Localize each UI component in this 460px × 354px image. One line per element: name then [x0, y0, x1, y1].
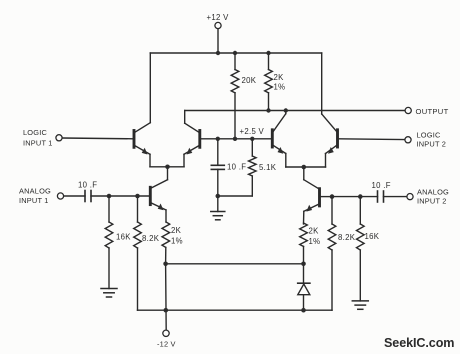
- resistor 2K 1% (left emitter): [162, 222, 170, 264]
- node: junction 20K top: [233, 51, 237, 55]
- wire: analog input 2 line: [332, 196, 378, 198]
- resistor 16K (right): [357, 197, 365, 301]
- capacitor 10uF (center, to ground): [211, 139, 224, 196]
- node: diode bottom on bottom rail: [301, 308, 306, 313]
- resistor 2K 1% (upper): [265, 53, 273, 111]
- +12V supply terminal: [215, 22, 221, 53]
- svg-text:2K: 2K: [309, 227, 320, 236]
- node: -12V junction on bottom rail: [164, 308, 169, 313]
- wire: base rail +2.5V between Q2 and Q3: [200, 138, 272, 140]
- transistor Q6 (right current source NPN): [304, 189, 333, 224]
- resistor 20K: [231, 53, 239, 139]
- svg-text:8.2K: 8.2K: [338, 233, 356, 242]
- svg-text:20K: 20K: [242, 76, 257, 85]
- wire: bottom rail: [138, 309, 333, 311]
- node: cap top on base rail: [216, 137, 220, 141]
- transistor Q3 (right inner NPN): [272, 111, 304, 168]
- svg-text:5.1K: 5.1K: [259, 163, 277, 172]
- node: right emitter junction: [302, 165, 307, 170]
- wire: Q4 base to logic input 2: [339, 138, 405, 141]
- node: left end of emitter rail: [163, 262, 168, 267]
- OUTPUT terminal: [405, 107, 411, 113]
- -12V supply terminal: [163, 330, 169, 336]
- node: right end of emitter rail: [301, 262, 306, 267]
- svg-text:-12 V: -12 V: [157, 340, 176, 349]
- svg-text:ANALOG: ANALOG: [417, 187, 449, 196]
- node: Q3 collector on output rail: [284, 108, 288, 112]
- resistor 2K 1% (right emitter): [300, 223, 308, 264]
- svg-text:16K: 16K: [116, 233, 131, 242]
- svg-text:2K: 2K: [171, 226, 182, 235]
- svg-text:INPUT 1: INPUT 1: [23, 138, 53, 147]
- capacitor 10uF (analog input 1, series): [64, 191, 149, 202]
- wire: Q6 base junction to analog input 2 line: [330, 194, 335, 199]
- svg-text:16K: 16K: [365, 232, 380, 241]
- node: 5.1K top on base rail: [250, 137, 254, 141]
- LOGIC INPUT 1 terminal: [56, 135, 62, 141]
- node: 16K right top: [358, 194, 363, 199]
- wire: right drop from top rail to Q4 collector: [321, 53, 323, 114]
- resistor 16K (left): [105, 196, 113, 289]
- node: junction +12V on top rail: [216, 51, 220, 55]
- svg-text:+12 V: +12 V: [207, 13, 230, 22]
- transistor Q2 (left inner NPN): [168, 111, 200, 167]
- svg-text:8.2K: 8.2K: [142, 234, 160, 243]
- node: junction 2K top: [266, 51, 270, 55]
- svg-text:SeekIC.com: SeekIC.com: [384, 336, 454, 350]
- svg-text:1%: 1%: [274, 83, 286, 92]
- wire: output rail: [185, 110, 405, 112]
- svg-text:+2.5 V: +2.5 V: [240, 127, 265, 136]
- capacitor 10uF (analog input 2, series): [378, 191, 407, 202]
- node: 8.2K top on analog line: [135, 194, 140, 199]
- node: cap/5.1K junction: [216, 194, 221, 199]
- ANALOG INPUT 1 terminal: [57, 193, 63, 199]
- svg-text:10 .F: 10 .F: [227, 162, 246, 171]
- svg-text:2K: 2K: [274, 73, 285, 82]
- svg-text:10 .F: 10 .F: [78, 181, 97, 190]
- svg-text:INPUT 2: INPUT 2: [417, 196, 447, 205]
- svg-text:INPUT 1: INPUT 1: [19, 196, 49, 205]
- wire: -12V drop: [165, 264, 168, 331]
- wire: right pair tail to Q6 collector: [304, 167, 319, 189]
- ground (center): [211, 196, 225, 220]
- svg-text:OUTPUT: OUTPUT: [416, 107, 449, 116]
- LOGIC INPUT 2 terminal: [405, 137, 411, 143]
- ANALOG INPUT 2 terminal: [407, 194, 413, 200]
- node: 20K bottom on base rail: [233, 137, 237, 141]
- svg-text:INPUT 2: INPUT 2: [417, 139, 447, 148]
- svg-text:1%: 1%: [309, 237, 321, 246]
- svg-text:10 .F: 10 .F: [372, 181, 391, 190]
- wire: left drop from top rail to Q1 collector: [149, 53, 151, 123]
- transistor Q4 (right outer NPN): [304, 114, 338, 167]
- svg-text:LOGIC: LOGIC: [23, 128, 47, 137]
- ground (right, under 16K): [352, 301, 368, 309]
- transistor Q1 (left outer NPN): [134, 123, 168, 167]
- wire: +12V top rail: [150, 52, 321, 54]
- wire: left pair tail to Q5 collector: [151, 167, 167, 188]
- wire: logic input 1 to Q1 base: [62, 137, 133, 140]
- svg-text:ANALOG: ANALOG: [19, 186, 51, 195]
- node: 2K bottom on output rail: [266, 108, 270, 112]
- resistor 8.2K (left): [134, 196, 142, 310]
- diode D1: [298, 264, 310, 310]
- svg-text:1%: 1%: [171, 237, 183, 246]
- node: 16K top on analog line: [107, 194, 112, 199]
- svg-text:LOGIC: LOGIC: [417, 130, 441, 139]
- resistor 5.1K: [218, 139, 256, 196]
- wire: emitter rail between 2K resistors: [166, 263, 304, 265]
- transistor Q5 (left current source NPN): [150, 187, 166, 222]
- node: left emitter junction: [165, 165, 170, 170]
- ground (left, under 16K): [101, 289, 117, 298]
- resistor 8.2K (right): [328, 197, 336, 311]
